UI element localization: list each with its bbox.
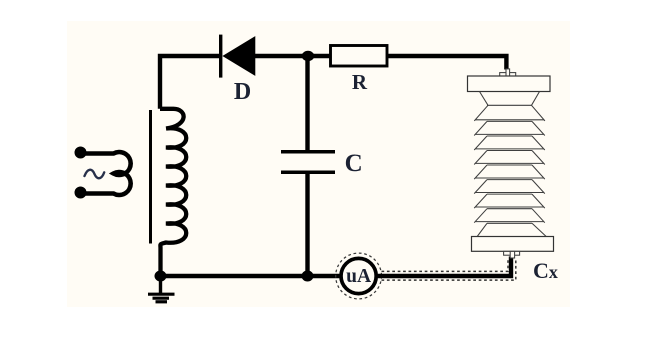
- transformer primary winding: [81, 152, 131, 195]
- shed 1: [474, 105, 545, 121]
- wire diode to node: [255, 54, 331, 58]
- shed 8: [474, 209, 545, 223]
- node junction bottom mid (cap/meter): [302, 271, 314, 282]
- transformer core: [149, 110, 152, 244]
- AC source terminal top: [75, 147, 87, 159]
- resistor R: [331, 46, 388, 67]
- svg-text:uA: uA: [346, 266, 371, 287]
- shed 4: [474, 151, 545, 165]
- wire meter to bushing bottom: [377, 257, 511, 277]
- diode D (cathode bar): [219, 35, 222, 78]
- shed 5: [474, 165, 545, 179]
- wire bottom left (node to cap node): [161, 274, 309, 278]
- svg-text:C: C: [345, 150, 363, 177]
- wire resistor to bushing top: [387, 56, 506, 70]
- wire cap node to meter: [308, 274, 341, 278]
- capacitor C lower lead: [305, 174, 309, 276]
- ground: [148, 279, 175, 302]
- transformer secondary winding: [160, 109, 186, 276]
- bushing neck: [480, 92, 540, 106]
- AC source terminal bottom: [75, 187, 87, 199]
- microammeter uA body: [341, 258, 376, 293]
- shed 6: [474, 180, 545, 194]
- capacitor C plates: [281, 150, 335, 154]
- guard dashed line lower: [382, 258, 516, 280]
- bushing top terminal: [500, 73, 516, 77]
- node junction bottom left (transformer/ground): [155, 271, 167, 282]
- bushing bottom flange: [472, 237, 554, 252]
- shed 7: [474, 194, 545, 208]
- shed 2: [474, 121, 545, 135]
- bushing Cx (test object): [468, 69, 554, 258]
- svg-text:D: D: [234, 79, 251, 105]
- diode D (triangle): [222, 36, 255, 76]
- capacitor C upper lead: [305, 56, 309, 150]
- shed 3: [474, 136, 545, 150]
- microammeter uA guard dashed circle: [336, 253, 382, 299]
- bushing bottom terminal: [504, 251, 520, 255]
- svg-text:Cx: Cx: [533, 258, 558, 283]
- wire top-left corner (diode to coil lead): [160, 56, 219, 109]
- bushing top flange: [468, 76, 551, 92]
- svg-text:R: R: [352, 70, 368, 94]
- bushing bottom skirt: [477, 223, 546, 236]
- guard dashed line upper: [382, 258, 509, 271]
- AC tilde symbol: [85, 170, 105, 179]
- node junction top (diode/R/C): [302, 51, 314, 61]
